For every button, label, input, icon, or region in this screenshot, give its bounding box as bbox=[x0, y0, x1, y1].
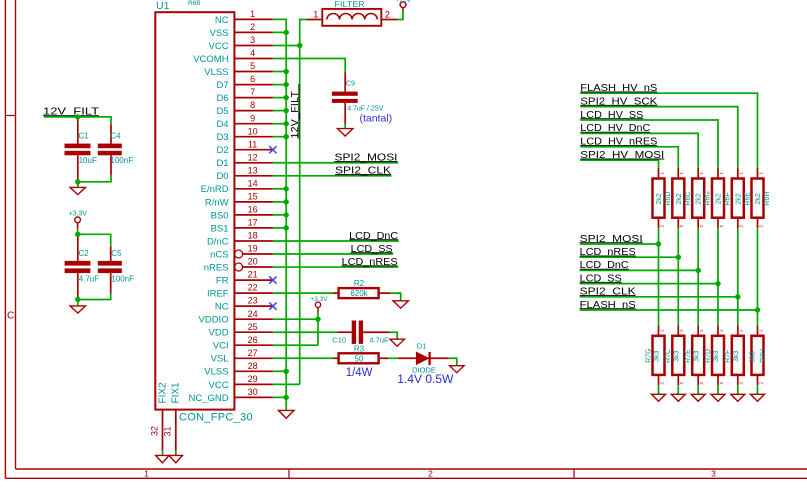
svg-text:R7E: R7E bbox=[685, 349, 692, 363]
svg-text:100nF: 100nF bbox=[110, 156, 133, 165]
resistor R6E 2k2 bbox=[737, 168, 739, 179]
junction dots bbox=[284, 30, 289, 35]
U1 pin 15 R/nW bbox=[234, 201, 273, 203]
svg-text:27: 27 bbox=[248, 348, 258, 358]
U1 pin 14 E/nRD bbox=[234, 188, 273, 190]
svg-text:1: 1 bbox=[719, 329, 724, 332]
U1 pin 4 VCOMH bbox=[234, 58, 273, 60]
wire pin6 to net A bbox=[273, 84, 286, 86]
resistor R6D 2k2 bbox=[658, 168, 660, 179]
svg-text:28: 28 bbox=[248, 361, 258, 371]
svg-text:nCS: nCS bbox=[210, 249, 228, 260]
svg-text:VDD: VDD bbox=[209, 328, 229, 339]
svg-text:1: 1 bbox=[739, 172, 744, 175]
wire LCD_nRES bbox=[580, 256, 679, 258]
svg-text:1: 1 bbox=[758, 329, 763, 332]
resistor R7H 3k3 bbox=[757, 326, 759, 336]
svg-text:FIX2: FIX2 bbox=[157, 382, 168, 404]
svg-text:4.7uF: 4.7uF bbox=[79, 274, 100, 283]
svg-text:CON_FPC_30: CON_FPC_30 bbox=[179, 411, 253, 423]
U1 pin 3 VCC bbox=[234, 45, 273, 47]
svg-text:1: 1 bbox=[739, 329, 744, 332]
resistor R6C 2k2 bbox=[677, 168, 679, 179]
svg-text:18: 18 bbox=[248, 231, 258, 241]
svg-text:2k2: 2k2 bbox=[735, 193, 742, 204]
wire pin17 to net A bbox=[273, 227, 286, 229]
svg-text:50: 50 bbox=[355, 354, 364, 363]
svg-text:2k2: 2k2 bbox=[696, 193, 703, 204]
svg-text:1.4V 0.5W: 1.4V 0.5W bbox=[397, 372, 454, 386]
wire C10 to ground bbox=[389, 332, 397, 339]
svg-text:1: 1 bbox=[659, 172, 664, 175]
svg-text:VCOMH: VCOMH bbox=[193, 54, 229, 65]
svg-text:10uF: 10uF bbox=[79, 156, 97, 165]
svg-text:D0: D0 bbox=[216, 171, 228, 182]
svg-text:21: 21 bbox=[248, 270, 258, 280]
sheet frame left outer border bbox=[4, 0, 6, 478]
U1 pin 5 VLSS bbox=[234, 71, 273, 73]
svg-text:R6D: R6D bbox=[665, 192, 672, 206]
resistor R2 bbox=[333, 292, 339, 294]
svg-text:D4: D4 bbox=[216, 119, 228, 130]
svg-text:16: 16 bbox=[248, 205, 258, 215]
svg-text:2: 2 bbox=[719, 225, 724, 228]
wire pin12 SPI2_MOSI bbox=[273, 162, 398, 164]
wire C2 to ground bbox=[77, 300, 79, 306]
resistor R7G 3k3 bbox=[658, 326, 660, 336]
svg-text:+12V: +12V bbox=[395, 0, 411, 4]
U1 pin 30 NC_GND bbox=[234, 396, 273, 398]
svg-text:D1: D1 bbox=[417, 341, 427, 350]
no-connect pin23 bbox=[269, 303, 276, 310]
wire pin28 to net A bbox=[273, 370, 286, 372]
svg-text:4.7uF / 25V: 4.7uF / 25V bbox=[347, 105, 384, 112]
resistor R3 bbox=[333, 357, 339, 359]
wire LCD_HV_DnC to resistor bbox=[580, 133, 698, 168]
svg-text:1: 1 bbox=[699, 329, 704, 332]
wire pin24 VDDIO bbox=[273, 318, 318, 320]
U1 pin 31 FIX1 bbox=[175, 410, 177, 451]
svg-text:13: 13 bbox=[248, 165, 258, 175]
capacitor C1 bbox=[77, 117, 79, 144]
svg-text:1: 1 bbox=[758, 172, 763, 175]
svg-text:C1: C1 bbox=[78, 132, 89, 141]
wire pin10 to net A bbox=[273, 136, 286, 138]
U1 pin 19 nCS bbox=[235, 250, 243, 258]
svg-text:R3: R3 bbox=[354, 344, 365, 353]
U1 pin 16 BS0 bbox=[234, 214, 273, 216]
svg-text:25: 25 bbox=[248, 322, 258, 332]
svg-text:R6H: R6H bbox=[764, 192, 771, 206]
wire pin2 to net A bbox=[273, 31, 286, 33]
wire C1 to ground bbox=[77, 182, 79, 188]
wire LCD_HV_SS to resistor bbox=[580, 120, 718, 168]
ground under C1/C4 bbox=[70, 187, 85, 194]
svg-text:1: 1 bbox=[679, 329, 684, 332]
svg-text:2: 2 bbox=[699, 225, 704, 228]
svg-text:FR: FR bbox=[216, 276, 229, 287]
svg-text:2k2: 2k2 bbox=[755, 193, 762, 204]
wire pin32 to ground bbox=[162, 451, 164, 456]
svg-text:R/nW: R/nW bbox=[205, 197, 229, 208]
ground under pin 31 bbox=[169, 455, 182, 462]
wire R7E to ground bbox=[697, 385, 699, 394]
ground under C2/C5 bbox=[70, 306, 85, 313]
svg-text:2: 2 bbox=[250, 22, 255, 32]
svg-text:3: 3 bbox=[711, 469, 716, 479]
svg-text:2: 2 bbox=[659, 225, 664, 228]
U1 pin 32 FIX2 bbox=[162, 410, 164, 451]
wire LCD_HV_nRES to resistor bbox=[580, 147, 678, 168]
svg-text:1: 1 bbox=[313, 10, 318, 20]
svg-text:VSL: VSL bbox=[211, 354, 229, 365]
svg-text:VCC: VCC bbox=[209, 380, 229, 391]
U1 pin 24 VDDIO bbox=[234, 318, 273, 320]
U1 pin 1 NC bbox=[234, 18, 273, 20]
svg-text:R6G: R6G bbox=[705, 191, 712, 205]
wire 12V_FILT top bbox=[44, 117, 111, 124]
diode D1 bbox=[399, 357, 416, 359]
svg-text:R6B: R6B bbox=[188, 0, 201, 7]
svg-text:14: 14 bbox=[248, 178, 258, 188]
ground after C10 bbox=[390, 339, 404, 346]
svg-text:NC: NC bbox=[215, 15, 229, 26]
ground under R7E bbox=[691, 394, 705, 401]
inductor FILTER coils bbox=[327, 13, 377, 19]
svg-text:2: 2 bbox=[739, 225, 744, 228]
svg-text:FILTER: FILTER bbox=[335, 0, 365, 9]
wire R3 to D1 bbox=[388, 357, 399, 359]
svg-text:3k3: 3k3 bbox=[674, 351, 681, 362]
svg-text:2: 2 bbox=[428, 469, 433, 479]
U1 pin 27 VSL bbox=[234, 357, 273, 359]
svg-text:C9: C9 bbox=[346, 81, 355, 88]
svg-text:NC: NC bbox=[215, 302, 229, 313]
svg-text:VDDIO: VDDIO bbox=[199, 315, 229, 326]
wire pin27 VSL to R3 bbox=[273, 357, 333, 359]
net B vertical wire 12V_FILT bbox=[300, 20, 307, 385]
svg-text:D/nC: D/nC bbox=[207, 236, 229, 247]
U1 pin 10 D3 bbox=[234, 136, 273, 138]
frame row tick bbox=[5, 115, 15, 117]
wire pin18 LCD_DnC bbox=[273, 240, 399, 242]
wire SPI2_MOSI bbox=[580, 243, 659, 245]
svg-text:1: 1 bbox=[659, 329, 664, 332]
resistor R7F 3k3 bbox=[737, 326, 739, 336]
svg-text:2k2: 2k2 bbox=[656, 193, 663, 204]
sheet frame left inner border bbox=[15, 0, 17, 469]
wire pin31 to ground bbox=[175, 451, 177, 456]
wire SPI2_CLK bbox=[580, 296, 738, 298]
svg-text:1: 1 bbox=[679, 172, 684, 175]
wire pin1 to net A bbox=[273, 19, 286, 410]
svg-text:FIX1: FIX1 bbox=[171, 382, 182, 404]
wire +3.3V to pins 24/26 bbox=[317, 313, 319, 346]
FILTER pin 1 bbox=[307, 19, 322, 21]
no-connect pin11 bbox=[269, 146, 276, 153]
svg-text:26: 26 bbox=[248, 335, 258, 345]
capacitor C2 bbox=[77, 234, 79, 261]
svg-text:2k2: 2k2 bbox=[676, 193, 683, 204]
wire R6G to lower network bbox=[697, 228, 699, 326]
svg-text:11: 11 bbox=[248, 139, 257, 149]
wire pin19 LCD_SS bbox=[273, 253, 393, 255]
svg-text:3: 3 bbox=[250, 35, 255, 45]
svg-text:3k3: 3k3 bbox=[693, 351, 700, 362]
svg-text:VLSS: VLSS bbox=[204, 367, 228, 378]
FILTER pin 2 bbox=[381, 19, 397, 21]
wire pin26 VCI bbox=[273, 344, 318, 346]
svg-text:12: 12 bbox=[248, 152, 258, 162]
resistor R7E 3k3 bbox=[697, 326, 699, 336]
wire R6E to lower network bbox=[737, 228, 739, 326]
U1 pin 21 FR bbox=[234, 279, 273, 281]
wire +3.3V top rail bbox=[78, 234, 111, 246]
wire R7H to ground bbox=[757, 385, 759, 394]
svg-text:29: 29 bbox=[248, 374, 258, 384]
U1 pin 23 NC bbox=[234, 305, 273, 307]
svg-text:IREF: IREF bbox=[207, 289, 229, 300]
svg-text:30: 30 bbox=[248, 387, 258, 397]
svg-text:(tantal): (tantal) bbox=[360, 112, 393, 124]
svg-text:BS0: BS0 bbox=[211, 210, 229, 221]
wire FILTER pin2 to +12V bbox=[397, 11, 403, 20]
svg-text:R7F: R7F bbox=[725, 350, 732, 363]
wire R7G to ground bbox=[658, 385, 660, 394]
wire C5 bottom bbox=[78, 293, 111, 300]
ground under pin 32 bbox=[156, 455, 169, 462]
svg-text:3k3: 3k3 bbox=[749, 351, 756, 362]
wire pin22 IREF to R2 bbox=[273, 292, 333, 294]
wire R6C to lower network bbox=[677, 228, 679, 326]
wire R7D to ground bbox=[717, 385, 719, 394]
svg-text:1: 1 bbox=[144, 469, 149, 479]
wire pin15 to net A bbox=[273, 201, 286, 203]
capacitor C9 bbox=[344, 73, 346, 92]
U1 pin 6 D7 bbox=[234, 84, 273, 86]
wire pin25 VDD to C10 bbox=[273, 331, 338, 333]
svg-text:8: 8 bbox=[250, 100, 255, 110]
svg-text:32: 32 bbox=[149, 426, 159, 436]
U1 pin 25 VDD bbox=[234, 331, 273, 333]
svg-text:6: 6 bbox=[250, 74, 255, 84]
wire pin9 to net A bbox=[273, 123, 286, 125]
ground under R7D bbox=[711, 394, 725, 401]
wire pin13 SPI2_CLK bbox=[273, 175, 392, 177]
wire pin29 to net B bbox=[273, 383, 300, 385]
svg-text:C2: C2 bbox=[79, 249, 90, 258]
svg-text:2: 2 bbox=[385, 10, 390, 20]
U1 pin 20 nRES bbox=[235, 263, 243, 271]
svg-text:VLSS: VLSS bbox=[204, 67, 228, 78]
connector U1 body bbox=[155, 12, 234, 409]
svg-text:R7C: R7C bbox=[665, 349, 672, 363]
ground under R7H bbox=[751, 394, 765, 401]
svg-text:R6C: R6C bbox=[685, 192, 692, 206]
svg-text:D6: D6 bbox=[216, 93, 228, 104]
ground under R7F bbox=[731, 394, 745, 401]
svg-text:2: 2 bbox=[739, 382, 744, 385]
ground after R2 bbox=[393, 301, 408, 308]
svg-text:4.7uF: 4.7uF bbox=[369, 335, 389, 344]
frame column tick 1/2 bbox=[288, 469, 290, 478]
svg-text:2: 2 bbox=[758, 225, 763, 228]
wire R7F to ground bbox=[737, 385, 739, 394]
svg-text:D2: D2 bbox=[216, 145, 228, 156]
svg-text:1: 1 bbox=[719, 172, 724, 175]
svg-text:620k: 620k bbox=[350, 289, 368, 298]
svg-text:2k2: 2k2 bbox=[716, 193, 723, 204]
svg-text:4: 4 bbox=[250, 48, 255, 58]
svg-text:31: 31 bbox=[163, 426, 173, 436]
sheet frame bottom outer border bbox=[5, 477, 807, 479]
ground under C9 bbox=[338, 129, 353, 136]
U1 pin 26 VCI bbox=[234, 344, 273, 346]
svg-text:19: 19 bbox=[248, 244, 258, 254]
U1 pin 22 IREF bbox=[234, 292, 273, 294]
svg-text:C5: C5 bbox=[111, 249, 122, 258]
sheet frame bottom inner border bbox=[16, 468, 807, 470]
svg-text:2: 2 bbox=[699, 382, 704, 385]
svg-text:3k3: 3k3 bbox=[713, 351, 720, 362]
svg-text:3k3: 3k3 bbox=[654, 351, 661, 362]
svg-text:D1: D1 bbox=[216, 158, 228, 169]
wire LCD_SS bbox=[580, 283, 718, 285]
svg-text:C4: C4 bbox=[110, 132, 121, 141]
capacitor C10 bbox=[338, 331, 352, 333]
wire SPI2_HV_SCK to resistor bbox=[580, 107, 738, 168]
svg-text:5: 5 bbox=[250, 61, 255, 71]
svg-text:10: 10 bbox=[248, 126, 258, 136]
U1 pin 12 D1 bbox=[234, 162, 273, 164]
U1 pin 11 D2 bbox=[234, 149, 273, 151]
frame column tick 2/3 bbox=[573, 469, 575, 478]
svg-text:1/4W: 1/4W bbox=[346, 367, 373, 379]
svg-text:VCC: VCC bbox=[209, 41, 229, 52]
U1 pin 29 VCC bbox=[234, 383, 273, 385]
ground under R7C bbox=[671, 394, 685, 401]
wire pin14 to net A bbox=[273, 188, 286, 190]
svg-text:R7H: R7H bbox=[760, 349, 767, 363]
U1 pin 2 VSS bbox=[234, 31, 273, 33]
svg-text:D5: D5 bbox=[216, 106, 228, 117]
svg-text:2: 2 bbox=[758, 382, 763, 385]
power +12V symbol bbox=[402, 8, 404, 11]
resistor R6F 2k2 bbox=[717, 168, 719, 179]
svg-text:C: C bbox=[7, 311, 14, 322]
svg-text:E/nRD: E/nRD bbox=[201, 184, 229, 195]
U1 pin 9 D4 bbox=[234, 123, 273, 125]
svg-text:NC_GND: NC_GND bbox=[188, 393, 228, 404]
svg-text:7: 7 bbox=[250, 87, 255, 97]
ground after D1 bbox=[450, 366, 464, 373]
svg-text:2: 2 bbox=[679, 225, 684, 228]
wire pin4 VCOMH to C9 bbox=[273, 59, 345, 73]
wire LCD_DnC bbox=[580, 269, 699, 271]
svg-text:100nF: 100nF bbox=[111, 274, 134, 283]
svg-text:20: 20 bbox=[248, 257, 258, 267]
svg-text:VSS: VSS bbox=[210, 28, 229, 39]
wire R2 to ground bbox=[390, 293, 401, 301]
U1 pin 7 D6 bbox=[234, 97, 273, 99]
svg-text:C10: C10 bbox=[332, 335, 346, 344]
svg-text:R2: R2 bbox=[354, 279, 365, 288]
resistor R6H 2k2 bbox=[757, 168, 759, 179]
wire FLASH_nS bbox=[580, 309, 758, 311]
svg-text:R6F: R6F bbox=[725, 192, 732, 205]
U1 pin 28 VLSS bbox=[234, 370, 273, 372]
ground under R7G bbox=[652, 394, 666, 401]
resistor R7C 3k3 bbox=[677, 326, 679, 336]
U1 pin 17 BS1 bbox=[234, 227, 273, 229]
wire R6H to lower network bbox=[757, 228, 759, 326]
svg-text:1: 1 bbox=[250, 9, 255, 19]
wire pin30 to net A bbox=[273, 396, 286, 398]
svg-text:2: 2 bbox=[659, 382, 664, 385]
svg-text:22: 22 bbox=[248, 283, 258, 293]
wire D1 to ground bbox=[449, 358, 457, 365]
wire pin16 to net A bbox=[273, 214, 286, 216]
wire C9 to ground bbox=[344, 124, 346, 129]
svg-text:R7G: R7G bbox=[645, 348, 652, 362]
svg-text:D3: D3 bbox=[216, 132, 228, 143]
wire R7C to ground bbox=[677, 385, 679, 394]
wire R6F to lower network bbox=[717, 228, 719, 326]
svg-text:23: 23 bbox=[248, 296, 258, 306]
ground at bottom of net A bbox=[278, 410, 294, 418]
svg-text:15: 15 bbox=[248, 192, 258, 202]
svg-text:2: 2 bbox=[719, 382, 724, 385]
svg-text:17: 17 bbox=[248, 218, 258, 228]
resistor R6G 2k2 bbox=[697, 168, 699, 179]
svg-text:1: 1 bbox=[699, 172, 704, 175]
capacitor C4 bbox=[110, 124, 112, 144]
no-connect pin21 bbox=[269, 276, 276, 283]
wire R6D to lower network bbox=[658, 228, 660, 326]
svg-text:D7: D7 bbox=[216, 80, 228, 91]
inductor FILTER body bbox=[322, 9, 381, 26]
capacitor C5 bbox=[110, 246, 112, 261]
svg-text:BS1: BS1 bbox=[211, 223, 229, 234]
wire C4 bottom bbox=[78, 175, 111, 182]
wire pin8 to net A bbox=[273, 110, 286, 112]
wire FLASH_HV_nS to resistor bbox=[580, 93, 757, 168]
wire pin3 to net B bbox=[273, 44, 300, 46]
svg-text:VCI: VCI bbox=[213, 341, 229, 352]
wire pin5 to net A bbox=[273, 71, 286, 73]
U1 pin 8 D5 bbox=[234, 110, 273, 112]
svg-text:nRES: nRES bbox=[204, 262, 229, 273]
svg-text:3k3: 3k3 bbox=[733, 351, 740, 362]
U1 pin 18 D/nC bbox=[234, 240, 273, 242]
svg-text:9: 9 bbox=[250, 113, 255, 123]
wire pin7 to net A bbox=[273, 97, 286, 99]
U1 pin 13 D0 bbox=[234, 175, 273, 177]
svg-text:24: 24 bbox=[248, 309, 258, 319]
svg-text:R7D: R7D bbox=[705, 349, 712, 363]
wire pin20 LCD_nRES bbox=[273, 266, 398, 268]
svg-text:2: 2 bbox=[679, 382, 684, 385]
resistor R7D 3k3 bbox=[717, 326, 719, 336]
wire +3.3V down bbox=[77, 229, 79, 235]
svg-text:U1: U1 bbox=[156, 0, 170, 12]
wire SPI2_HV_MOSI to resistor bbox=[580, 160, 658, 168]
